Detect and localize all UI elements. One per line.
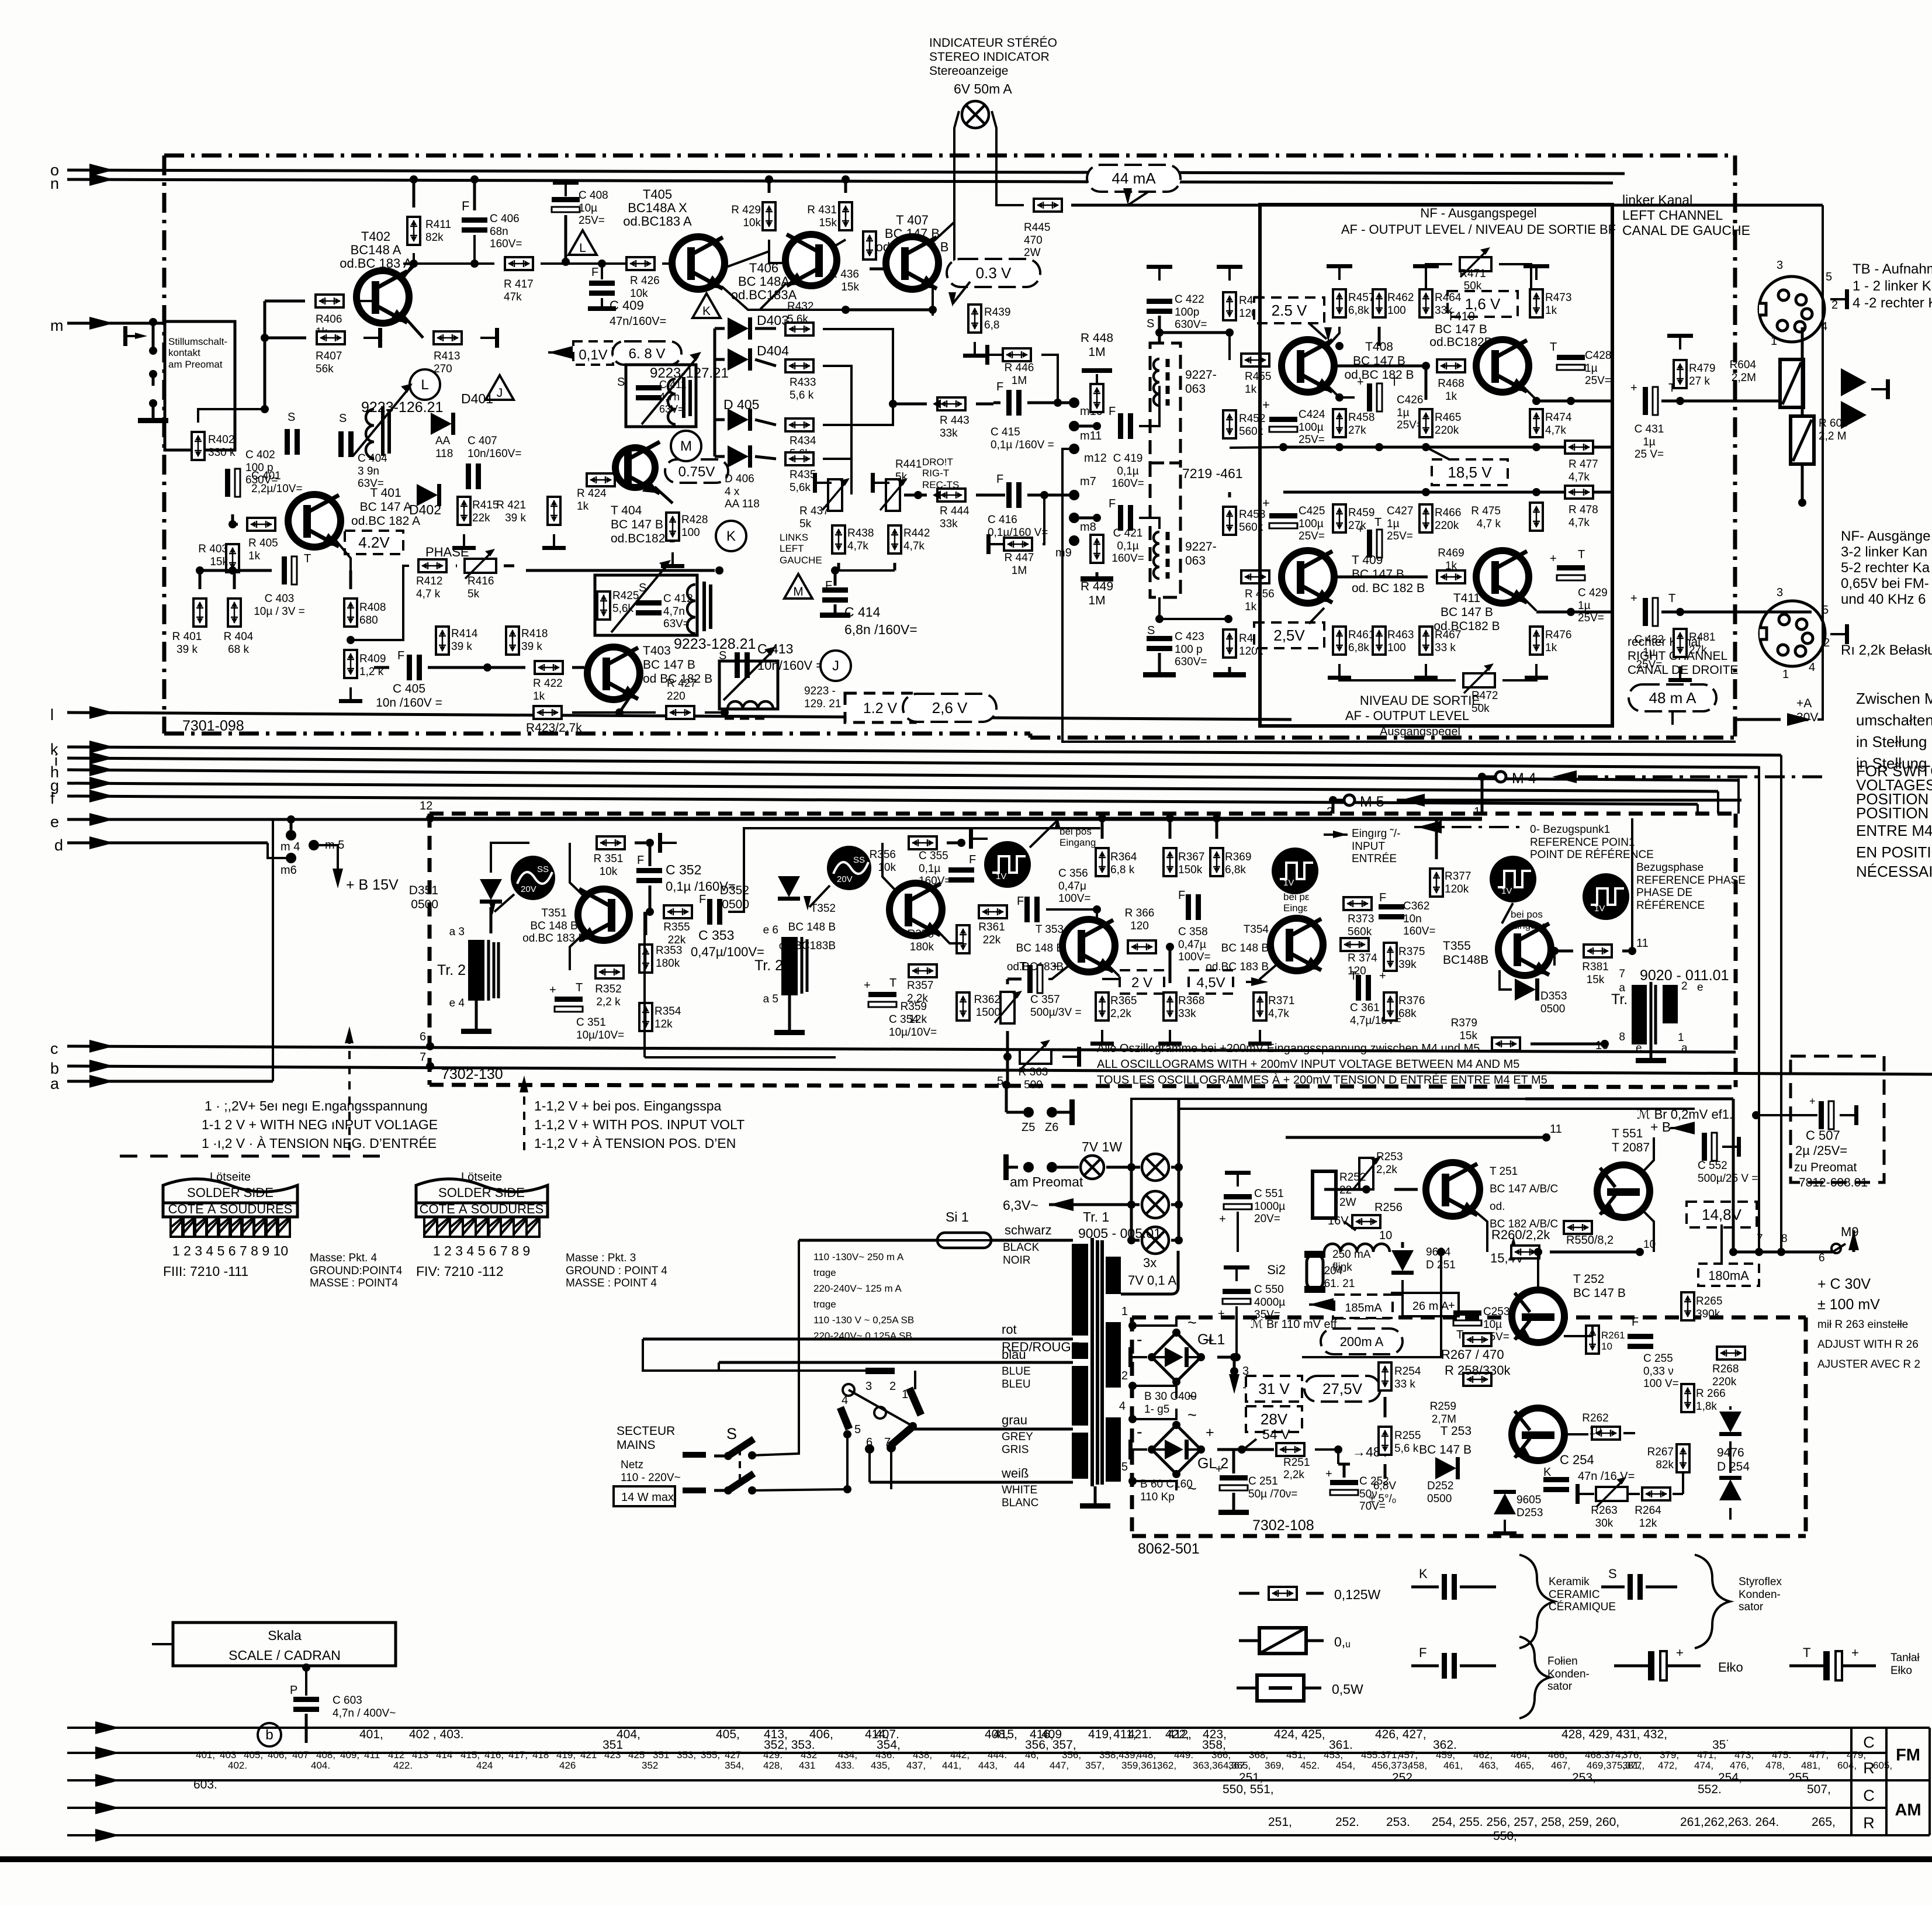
svg-text:10n: 10n bbox=[1403, 913, 1422, 925]
wire 6.3V arrow bbox=[1049, 1198, 1074, 1211]
junction n-C406 bbox=[470, 175, 479, 184]
wire 44mA rail bbox=[1071, 204, 1823, 207]
svg-text:4,7n / 400V~: 4,7n / 400V~ bbox=[333, 1707, 396, 1720]
svg-text:GROUND:POINT4: GROUND:POINT4 bbox=[310, 1265, 403, 1277]
svg-text:33 k: 33 k bbox=[1394, 1378, 1415, 1390]
svg-text:479,: 479, bbox=[1847, 1749, 1866, 1760]
svg-text:DRO!T: DRO!T bbox=[922, 456, 953, 468]
svg-text:m8: m8 bbox=[1080, 521, 1096, 534]
wire T251 emitter to R260 bbox=[1473, 1209, 1487, 1252]
svg-text:362,: 362, bbox=[1157, 1760, 1176, 1771]
wire T351 collector bbox=[570, 843, 583, 895]
capacitor C422 bbox=[1147, 299, 1172, 304]
svg-text:28V: 28V bbox=[1261, 1410, 1288, 1428]
svg-text:476,: 476, bbox=[1730, 1760, 1749, 1771]
svg-text:C 356: C 356 bbox=[1058, 867, 1088, 880]
svg-text:4,7k: 4,7k bbox=[1545, 424, 1566, 437]
svg-text:10k: 10k bbox=[600, 866, 618, 878]
transistor T251 bbox=[1426, 1163, 1480, 1216]
wire reg bottom rail bbox=[1338, 1535, 1730, 1537]
wire lamp to bus bbox=[1106, 1166, 1140, 1169]
wire R253-R252 row bbox=[1324, 1188, 1366, 1191]
svg-text:am Preomat: am Preomat bbox=[1010, 1174, 1083, 1189]
svg-text:4000µ: 4000µ bbox=[1254, 1296, 1285, 1309]
svg-text:358,439,: 358,439, bbox=[1099, 1749, 1138, 1760]
svg-text:R 374: R 374 bbox=[1348, 952, 1377, 964]
terminal m8 bbox=[1069, 513, 1079, 523]
resistor R361 bbox=[979, 905, 1007, 918]
svg-text:160V=: 160V= bbox=[1112, 552, 1144, 565]
wire bus m arrow bbox=[89, 317, 114, 330]
gnd R428 bbox=[671, 552, 674, 564]
wire T252 collector up bbox=[1537, 1252, 1539, 1290]
svg-text:8: 8 bbox=[1781, 1233, 1788, 1245]
selector wiper circles bbox=[843, 1384, 854, 1396]
svg-text:25V=: 25V= bbox=[1387, 530, 1413, 542]
svg-text:2,2µ/10V=: 2,2µ/10V= bbox=[251, 483, 303, 495]
svg-text:L: L bbox=[579, 241, 586, 255]
svg-text:GROUND : POINT 4: GROUND : POINT 4 bbox=[566, 1265, 667, 1277]
svg-text:129. 21: 129. 21 bbox=[804, 698, 841, 710]
wire T252-R261 bbox=[1564, 1335, 1592, 1337]
svg-text:R 363: R 363 bbox=[1019, 1066, 1048, 1078]
svg-text:4,7k: 4,7k bbox=[847, 540, 868, 552]
capacitor C603 bbox=[293, 1697, 319, 1702]
diode D404 bbox=[728, 348, 749, 371]
resistor R446 bbox=[1003, 348, 1031, 361]
svg-text:473,: 473, bbox=[1734, 1749, 1754, 1760]
svg-text:10µ/10V=: 10µ/10V= bbox=[576, 1029, 624, 1042]
terminal M5 bbox=[1344, 795, 1355, 805]
svg-text:R367: R367 bbox=[1178, 851, 1204, 863]
svg-text:D351: D351 bbox=[409, 884, 438, 897]
svg-text:47n /16 V=: 47n /16 V= bbox=[1578, 1470, 1635, 1483]
svg-text:411: 411 bbox=[364, 1749, 380, 1760]
svg-text:NÉCESSAIRE: NÉCESSAIRE bbox=[1856, 863, 1932, 880]
resistor R359 bbox=[957, 992, 970, 1021]
capacitor C406 bbox=[462, 217, 487, 223]
svg-text:2: 2 bbox=[1681, 980, 1688, 992]
resistor R264 bbox=[1642, 1488, 1670, 1500]
svg-text:T402: T402 bbox=[361, 229, 390, 244]
svg-text:354,: 354, bbox=[725, 1760, 744, 1771]
svg-text:R457: R457 bbox=[1348, 292, 1374, 304]
wire bus a arrow bbox=[89, 1075, 114, 1088]
svg-text:+: + bbox=[1448, 1299, 1455, 1312]
wire emitter rail bbox=[200, 569, 272, 572]
box 185mA bbox=[1334, 1295, 1393, 1318]
svg-text:C 429: C 429 bbox=[1578, 587, 1608, 599]
svg-text:ALL OSCILLOGRAMS WITH +: ALL OSCILLOGRAMS WITH + 200mV INPUT VOLT… bbox=[1097, 1058, 1519, 1071]
svg-text:R251: R251 bbox=[1283, 1457, 1310, 1469]
svg-text:2µ /25V=: 2µ /25V= bbox=[1795, 1143, 1847, 1158]
wire T351 emitter bbox=[570, 934, 583, 970]
wire output row left amp bbox=[1536, 400, 1612, 403]
svg-text:180k: 180k bbox=[656, 957, 680, 970]
svg-text:25V=: 25V= bbox=[1578, 612, 1604, 624]
svg-text:1 - 2 linker Ka: 1 - 2 linker Ka bbox=[1853, 278, 1932, 294]
wire M5 stub bbox=[1333, 799, 1344, 802]
svg-text:2,2k: 2,2k bbox=[1110, 1008, 1131, 1020]
wire T406 emitter row bbox=[760, 283, 786, 310]
svg-text:22k: 22k bbox=[472, 512, 490, 524]
wire skala down bbox=[152, 1643, 173, 1645]
svg-text:R371: R371 bbox=[1268, 995, 1294, 1007]
svg-text:453,: 453, bbox=[1324, 1749, 1343, 1760]
svg-text:160V=: 160V= bbox=[490, 238, 522, 250]
svg-text:468.374,: 468.374, bbox=[1585, 1749, 1623, 1760]
lamp 7V1W bbox=[1081, 1156, 1104, 1179]
svg-text:a 5: a 5 bbox=[763, 993, 778, 1005]
svg-text:R406: R406 bbox=[316, 313, 342, 326]
junction R408-R409 bbox=[347, 636, 355, 644]
lamp L1 bbox=[1142, 1154, 1169, 1181]
svg-text:R 429: R 429 bbox=[731, 204, 761, 216]
svg-text:401,: 401, bbox=[196, 1749, 215, 1760]
svg-text:063: 063 bbox=[1185, 382, 1206, 396]
svg-text:BC 147 A: BC 147 A bbox=[360, 500, 412, 514]
svg-text:R265: R265 bbox=[1696, 1295, 1722, 1307]
wire R446 up right bbox=[1041, 355, 1058, 403]
svg-text:R354: R354 bbox=[655, 1005, 681, 1018]
wire T352 collector bbox=[882, 843, 895, 890]
svg-text:419,: 419, bbox=[556, 1749, 576, 1760]
svg-text:EN POSITION: EN POSITION bbox=[1856, 843, 1932, 861]
wire M4 stub bbox=[1482, 776, 1495, 779]
resistor R429 bbox=[763, 202, 775, 230]
svg-text:R455: R455 bbox=[1245, 371, 1271, 383]
wire R454 gnd bbox=[1228, 667, 1231, 672]
svg-text:0,33 ν: 0,33 ν bbox=[1643, 1365, 1674, 1378]
coil box 9223-127 bbox=[626, 365, 696, 427]
svg-text:R413: R413 bbox=[434, 350, 460, 362]
svg-text:25V=: 25V= bbox=[1299, 530, 1325, 542]
winding top transformer bbox=[1154, 359, 1159, 406]
svg-text:481,: 481, bbox=[1801, 1760, 1820, 1771]
wire T408 collector to R462 bbox=[1328, 327, 1339, 346]
svg-text:R: R bbox=[1863, 1814, 1875, 1832]
resistor R424 bbox=[587, 473, 615, 486]
wire GL1 taps bbox=[1133, 1316, 1176, 1326]
oval 27.5V bbox=[1304, 1376, 1380, 1402]
svg-text:e: e bbox=[50, 813, 59, 831]
svg-text:SCALE / CADRAN: SCALE / CADRAN bbox=[228, 1648, 341, 1663]
wire bus o arrow bbox=[89, 164, 114, 177]
resistor R421 bbox=[548, 497, 560, 525]
svg-text:T 353: T 353 bbox=[1036, 923, 1064, 936]
svg-text:m12: m12 bbox=[1084, 452, 1107, 465]
wire Tr2 bottom gnd bbox=[475, 1001, 478, 1029]
wire R443 row bbox=[893, 403, 927, 406]
svg-text:415,: 415, bbox=[993, 1728, 1017, 1741]
svg-text:AM: AM bbox=[1895, 1801, 1921, 1819]
svg-text:10µ/10V=: 10µ/10V= bbox=[889, 1026, 937, 1039]
wire C414 top bbox=[834, 570, 837, 586]
wire T405 collector net bbox=[725, 240, 769, 268]
svg-text:+ B 15V: + B 15V bbox=[346, 877, 399, 893]
svg-text:Netz: Netz bbox=[621, 1459, 643, 1471]
svg-text:100p: 100p bbox=[1175, 306, 1199, 319]
wire dashed arrow pos bbox=[523, 1081, 525, 1151]
svg-text:BC 147 B: BC 147 B bbox=[1352, 568, 1404, 581]
resistor R376 bbox=[1384, 992, 1397, 1021]
svg-text:250 mA: 250 mA bbox=[1332, 1248, 1371, 1261]
resistor R476 bbox=[1530, 627, 1543, 655]
svg-text:376,: 376, bbox=[1622, 1749, 1642, 1760]
svg-text:507,: 507, bbox=[1807, 1783, 1831, 1796]
wire 4.5V arrow bbox=[1246, 981, 1260, 983]
svg-text:GRIS: GRIS bbox=[1002, 1444, 1029, 1456]
svg-text:30k: 30k bbox=[1595, 1517, 1614, 1530]
svg-text:472,: 472, bbox=[1658, 1760, 1677, 1771]
wire preomat to lamp bbox=[1057, 1166, 1079, 1169]
wire decoder inner box bottom bbox=[645, 1056, 836, 1058]
wire sel6 down bbox=[868, 1449, 871, 1482]
svg-text:T: T bbox=[1550, 341, 1557, 354]
wire h bus turn bbox=[1737, 779, 1740, 814]
wire bus o bbox=[67, 170, 1625, 174]
svg-text:od.BC183 A: od.BC183 A bbox=[623, 214, 692, 229]
wire R412-R416 bbox=[456, 565, 457, 568]
svg-text:Z5: Z5 bbox=[1022, 1121, 1035, 1134]
svg-text:R438: R438 bbox=[847, 527, 874, 539]
resistor R443 bbox=[937, 397, 965, 410]
svg-text:+: + bbox=[864, 979, 871, 992]
resistor R477 bbox=[1565, 441, 1593, 454]
svg-text:252.: 252. bbox=[1335, 1815, 1359, 1829]
capacitor C552 (elko) bbox=[1702, 1133, 1707, 1161]
svg-text:367.: 367. bbox=[1228, 1760, 1248, 1771]
wire D351 down bbox=[490, 907, 493, 933]
transistor T352 bbox=[889, 883, 942, 936]
wire C422-R451 rail bbox=[1159, 331, 1230, 334]
svg-text:435,: 435, bbox=[871, 1760, 890, 1771]
wire GL2 taps bbox=[1133, 1409, 1176, 1419]
wire osc2 arrow bbox=[809, 885, 830, 907]
svg-text:2: 2 bbox=[1823, 637, 1830, 649]
capacitor C403 (elko) bbox=[282, 556, 287, 584]
svg-text:459,: 459, bbox=[1436, 1749, 1455, 1760]
svg-text:100 V=: 100 V= bbox=[1643, 1378, 1679, 1390]
resistor R253 (pot) bbox=[1359, 1158, 1373, 1189]
svg-text:27k: 27k bbox=[1689, 644, 1707, 656]
capacitor C407 bbox=[466, 463, 471, 489]
svg-text:47n/160V=: 47n/160V= bbox=[610, 315, 666, 328]
svg-text:m: m bbox=[50, 317, 64, 334]
svg-text:416,: 416, bbox=[484, 1749, 504, 1760]
wire i bus turn bbox=[1758, 766, 1760, 1252]
oval 44mA bbox=[1087, 165, 1180, 192]
svg-text:T 551: T 551 bbox=[1612, 1127, 1643, 1140]
svg-text:C 352: C 352 bbox=[666, 862, 701, 877]
svg-text:27,5V: 27,5V bbox=[1322, 1380, 1363, 1397]
svg-text:2,5V: 2,5V bbox=[1273, 627, 1305, 644]
box 180mA bbox=[1698, 1264, 1759, 1286]
junction C408-L rail bbox=[562, 258, 570, 266]
transistor T404 bbox=[615, 448, 655, 487]
svg-text:458,: 458, bbox=[1408, 1760, 1427, 1771]
wire b bus node7 bbox=[426, 1062, 434, 1070]
svg-text:404.: 404. bbox=[311, 1760, 330, 1771]
svg-text:T405: T405 bbox=[643, 187, 672, 202]
oscillogram square 1 bbox=[984, 841, 1031, 888]
svg-text:R468: R468 bbox=[1438, 378, 1464, 390]
resistor R265 bbox=[1681, 1292, 1694, 1320]
wire T402 emitter to R413 bbox=[403, 316, 423, 338]
coil 9223-126 winding bbox=[366, 409, 374, 458]
wire top rail 1880 bbox=[1525, 1098, 1733, 1101]
svg-text:C 357: C 357 bbox=[1030, 994, 1060, 1006]
resistor R355 bbox=[664, 905, 692, 918]
wire R251 to -48V bbox=[1315, 1450, 1338, 1464]
svg-text:T 401: T 401 bbox=[370, 486, 401, 500]
svg-text:C: C bbox=[1863, 1787, 1875, 1804]
svg-text:+: + bbox=[1357, 376, 1364, 389]
svg-text:0,47μ: 0,47μ bbox=[1058, 880, 1086, 893]
wire bus f arrow bbox=[89, 790, 114, 802]
svg-text:2W: 2W bbox=[1024, 247, 1041, 259]
wire am Preomat tbar bbox=[1003, 1154, 1009, 1180]
wire R381 right bbox=[1622, 950, 1632, 953]
transformer Tr1 sec bar 1-2 bbox=[1106, 1322, 1121, 1388]
svg-text:1k: 1k bbox=[1445, 560, 1457, 572]
svg-text:AJUSTER AVEC R 2: AJUSTER AVEC R 2 bbox=[1817, 1358, 1920, 1371]
pot R362 bbox=[1000, 992, 1015, 1023]
table line 4 bbox=[67, 1807, 1886, 1809]
wire R471 link left bbox=[1426, 264, 1452, 292]
svg-text:1: 1 bbox=[1782, 668, 1789, 681]
resistor R425 bbox=[597, 591, 610, 620]
resistor R409 bbox=[344, 650, 357, 678]
wire C432 right bbox=[1661, 611, 1812, 614]
svg-text:449.: 449. bbox=[1174, 1749, 1193, 1760]
wire d to m6 bbox=[268, 843, 286, 858]
resistor R475 bbox=[1530, 503, 1543, 531]
svg-text:220k: 220k bbox=[1435, 424, 1459, 437]
wire T551 emitter bbox=[1643, 1211, 1654, 1252]
svg-text:C 358: C 358 bbox=[1178, 926, 1208, 938]
wire T409 base link bbox=[1331, 576, 1428, 579]
svg-text:2,2k: 2,2k bbox=[1283, 1469, 1304, 1481]
wire R405 left junction bbox=[228, 520, 237, 528]
svg-text:39 k: 39 k bbox=[451, 641, 472, 653]
resistor R381 bbox=[1584, 945, 1612, 957]
svg-text:R409: R409 bbox=[359, 653, 386, 665]
lamp stereo indicator 6V 50mA bbox=[962, 101, 989, 128]
wire R365 top bbox=[1102, 966, 1122, 979]
svg-text:7V 1W: 7V 1W bbox=[1082, 1139, 1122, 1154]
wire T355-R381 bbox=[1548, 950, 1573, 953]
svg-text:R 421: R 421 bbox=[496, 499, 526, 511]
wire lamp col right bbox=[1171, 1166, 1179, 1169]
wire T402 collector rail bbox=[403, 262, 494, 265]
svg-text:5: 5 bbox=[1826, 271, 1832, 283]
svg-text:6: 6 bbox=[420, 1030, 426, 1043]
svg-text:R252: R252 bbox=[1339, 1171, 1366, 1184]
wire T253 base row bbox=[1565, 1433, 1588, 1435]
svg-text:-: - bbox=[1137, 1423, 1142, 1441]
wire C551 down bbox=[1237, 1212, 1239, 1252]
wire bus h bbox=[67, 770, 1739, 780]
svg-text:BC 147 A/B/C: BC 147 A/B/C bbox=[1490, 1183, 1558, 1195]
terminal m12 bbox=[1069, 444, 1079, 454]
svg-text:10n/160V=: 10n/160V= bbox=[468, 448, 521, 460]
svg-text:408,: 408, bbox=[316, 1749, 335, 1760]
svg-text:1: 1 bbox=[1771, 335, 1777, 348]
svg-text:R376: R376 bbox=[1398, 995, 1425, 1007]
svg-text:RIG-T: RIG-T bbox=[922, 468, 949, 479]
svg-text:1-1 2 V + WITH NEG ıNPUT: 1-1 2 V + WITH NEG ıNPUT VOL1AGE bbox=[202, 1117, 438, 1132]
svg-text:10: 10 bbox=[1379, 1229, 1392, 1242]
wire diode ring left bbox=[715, 327, 725, 330]
svg-text:T 407: T 407 bbox=[896, 213, 929, 227]
svg-text:6V 50m A: 6V 50m A bbox=[954, 81, 1012, 96]
svg-text:BC 148 B: BC 148 B bbox=[788, 921, 836, 933]
svg-text:25V=: 25V= bbox=[579, 215, 605, 227]
resistor R434 bbox=[785, 418, 813, 431]
capacitor C408 (elko) bbox=[552, 197, 580, 202]
svg-text:R 436: R 436 bbox=[829, 268, 859, 281]
svg-text:fłink: fłink bbox=[1332, 1261, 1352, 1274]
svg-text:20V: 20V bbox=[521, 884, 536, 894]
junction R434 node bbox=[889, 400, 897, 408]
svg-text:10µ / 3V =: 10µ / 3V = bbox=[254, 606, 305, 618]
svg-text:R469: R469 bbox=[1438, 547, 1464, 559]
svg-text:442,: 442, bbox=[950, 1749, 970, 1760]
svg-text:9605: 9605 bbox=[1516, 1494, 1541, 1506]
svg-text:R 403: R 403 bbox=[198, 543, 228, 555]
resistor R468 bbox=[1437, 359, 1465, 372]
svg-text:160V=: 160V= bbox=[1403, 925, 1435, 938]
svg-text:R364: R364 bbox=[1110, 851, 1137, 863]
wire DIN1 tab bbox=[1830, 298, 1847, 300]
wire Tr2 mid gnd bbox=[788, 995, 791, 1030]
svg-text:5k: 5k bbox=[468, 588, 480, 600]
svg-text:~: ~ bbox=[1187, 1406, 1197, 1424]
resistor R457 bbox=[1333, 289, 1346, 317]
wire c bus node6 bbox=[426, 1042, 434, 1050]
resistor R374 bbox=[1341, 938, 1369, 951]
wire R427 row bbox=[572, 711, 656, 714]
resistor R461 bbox=[1333, 627, 1346, 655]
resistor R408 bbox=[344, 599, 357, 627]
svg-text:e: e bbox=[1697, 981, 1704, 994]
svg-text:+: + bbox=[1206, 1424, 1214, 1441]
oval 200mA bbox=[1321, 1329, 1403, 1354]
svg-text:SECTEUR: SECTEUR bbox=[617, 1424, 675, 1438]
wire bus b arrow bbox=[89, 1060, 114, 1073]
resistor R449 bbox=[1090, 535, 1103, 563]
svg-text:od.BC 183 B: od.BC 183 B bbox=[522, 932, 586, 945]
wire T407 collector up bbox=[932, 207, 954, 243]
svg-text:AA: AA bbox=[435, 435, 451, 447]
svg-text:C 507: C 507 bbox=[1806, 1128, 1840, 1143]
box 26mA bbox=[1403, 1293, 1459, 1316]
wire R401 top bbox=[199, 570, 202, 589]
svg-text:6: 6 bbox=[1819, 1252, 1825, 1264]
svg-text:R 446: R 446 bbox=[1005, 362, 1034, 374]
svg-text:6. 8 V: 6. 8 V bbox=[629, 346, 666, 362]
svg-text:K: K bbox=[702, 305, 711, 318]
svg-text:R 478: R 478 bbox=[1569, 504, 1598, 516]
resistor R267b bbox=[1677, 1444, 1689, 1472]
svg-text:R255: R255 bbox=[1394, 1430, 1421, 1442]
svg-text:C 355: C 355 bbox=[919, 850, 948, 862]
wire l bus through R423 bbox=[523, 704, 525, 707]
wire R441 tbar bbox=[873, 482, 889, 484]
svg-text:1-1,2 V + WITH POS. INPUT: 1-1,2 V + WITH POS. INPUT VOLT bbox=[534, 1117, 745, 1132]
voltage 1.2V box bbox=[845, 693, 915, 722]
